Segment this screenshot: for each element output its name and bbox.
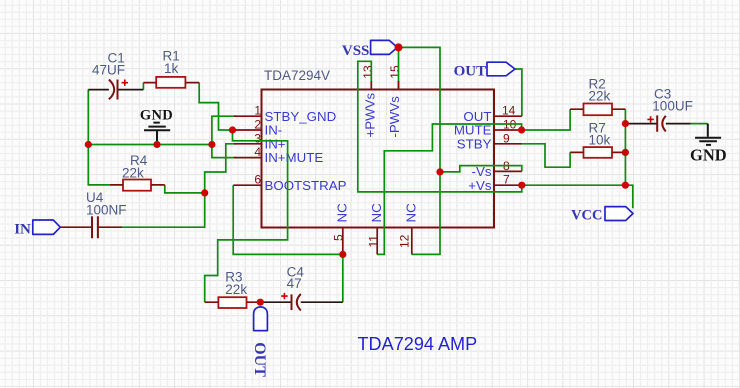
wire node to pin 1	[212, 116, 236, 144]
pin 14 stub	[494, 115, 522, 117]
capacitor C3 plus	[647, 116, 653, 122]
wire VSS to right vertical	[397, 47, 440, 254]
wire -Vs jog to pin 8	[440, 166, 522, 172]
svg-text:11: 11	[366, 235, 380, 248]
wire main ground horizontal	[88, 144, 212, 146]
wire STBY to R7 left	[522, 144, 571, 167]
wire +Vs line to VCC	[522, 185, 633, 208]
pin 7 stub	[494, 184, 522, 186]
capacitor C3 leads	[625, 123, 690, 125]
svg-text:OUT: OUT	[251, 342, 268, 377]
capacitor C4 plus	[281, 293, 287, 299]
svg-text:MUTE: MUTE	[454, 123, 492, 138]
wire pin 6 bootstrap down	[233, 185, 343, 254]
resistor R1 body	[156, 77, 185, 88]
wire C1 to R1 jog	[142, 83, 144, 90]
svg-text:+PWVs: +PWVs	[363, 92, 378, 137]
pin 9 stub	[494, 143, 522, 145]
wire pin 5 node to C4	[342, 254, 344, 302]
ground symbol left (inverted)	[144, 123, 170, 143]
svg-text:IN+: IN+	[265, 136, 286, 151]
wire R2 R7 right vertical	[624, 109, 626, 185]
svg-text:100UF: 100UF	[652, 99, 693, 114]
svg-text:22k: 22k	[122, 166, 144, 181]
svg-text:15: 15	[388, 65, 402, 79]
pin 1 stub	[234, 115, 262, 117]
pin 5 stub	[342, 228, 344, 255]
wire VSS to pin 15	[398, 47, 400, 88]
port OUT flag top	[487, 62, 515, 76]
resistor R2 leads	[570, 108, 625, 110]
svg-text:1k: 1k	[164, 61, 179, 76]
svg-text:TDA7294V: TDA7294V	[264, 68, 330, 83]
wire R1 right to IN- node	[199, 83, 232, 130]
svg-text:TDA7294 AMP: TDA7294 AMP	[358, 334, 478, 354]
wire pin 13 jog down through IC	[358, 61, 522, 192]
pin 10 stub	[494, 129, 522, 131]
port VCC flag	[605, 207, 633, 221]
resistor R3 body	[218, 297, 246, 308]
svg-text:STBY_GND: STBY_GND	[265, 109, 337, 124]
svg-text:IN: IN	[14, 221, 31, 237]
resistor R7 body	[584, 147, 613, 158]
wire C1 left vertical	[87, 90, 89, 145]
wire pin 11 to MUTE line	[377, 124, 521, 254]
pin 11 stub	[376, 228, 378, 255]
svg-text:STBY: STBY	[457, 136, 492, 151]
svg-text:100NF: 100NF	[86, 203, 127, 218]
port OUT flag bottom	[254, 307, 268, 331]
svg-text:VSS: VSS	[342, 43, 370, 59]
svg-text:12: 12	[398, 234, 412, 248]
capacitor C1 plus	[122, 80, 128, 86]
resistor R2 body	[584, 104, 613, 116]
ground symbol right	[695, 124, 721, 145]
svg-text:IN+MUTE: IN+MUTE	[265, 150, 324, 165]
svg-text:OUT: OUT	[463, 109, 491, 124]
wire to R4 left	[88, 145, 110, 185]
wire IN- feedback to R3	[205, 130, 288, 302]
resistor R4 body	[123, 180, 151, 191]
wire MUTE node to R2 left	[522, 109, 571, 130]
pin 15 stub	[398, 81, 400, 90]
capacitor C1 leads	[88, 89, 143, 91]
svg-text:IN-: IN-	[265, 123, 283, 138]
wire node to U4	[122, 193, 204, 227]
wire C3 to ground	[691, 123, 708, 125]
capacitor C3 plates	[657, 115, 666, 131]
pin 13 stub	[370, 81, 372, 90]
capacitor C4 leads	[260, 301, 343, 303]
pin 6 stub	[233, 184, 261, 186]
svg-text:VCC: VCC	[571, 208, 602, 224]
port IN flag	[33, 220, 61, 234]
wire OUT flag to pin 14	[515, 69, 522, 116]
svg-text:NC: NC	[335, 203, 350, 223]
svg-text:22k: 22k	[589, 89, 611, 104]
pin 8 stub	[494, 170, 522, 172]
op-amp U1 TDA7294V IC body	[262, 90, 495, 228]
port VSS flag	[371, 40, 398, 54]
pin 4 stub	[234, 157, 262, 159]
capacitor U4 leads	[60, 226, 122, 228]
resistor R4 leads	[110, 184, 165, 186]
svg-text:13: 13	[361, 65, 375, 79]
svg-text:22k: 22k	[225, 282, 247, 297]
svg-text:BOOTSTRAP: BOOTSTRAP	[265, 178, 347, 193]
wire node to pin 3	[205, 144, 236, 193]
junction node dots	[85, 141, 92, 148]
pin 2 stub	[233, 129, 262, 131]
capacitor C4 plates	[292, 294, 301, 310]
capacitor U4 plates	[92, 216, 98, 238]
svg-text:+Vs: +Vs	[468, 178, 492, 193]
resistor R3 leads	[205, 301, 261, 303]
capacitor C1 plates	[109, 80, 118, 100]
resistor R1 leads	[143, 82, 199, 84]
svg-text:OUT: OUT	[454, 64, 487, 80]
svg-text:GND: GND	[690, 145, 727, 164]
svg-text:10k: 10k	[589, 132, 611, 147]
svg-text:GND: GND	[140, 107, 173, 123]
wire node to pin 4	[212, 145, 236, 158]
svg-text:NC: NC	[369, 203, 384, 223]
svg-text:47: 47	[287, 276, 302, 291]
pin 3 stub	[234, 143, 262, 145]
svg-text:-PWVs: -PWVs	[387, 96, 402, 138]
pin 12 stub	[411, 228, 413, 255]
svg-text:47UF: 47UF	[92, 63, 125, 78]
svg-text:NC: NC	[404, 203, 419, 223]
wire R4 right to node	[165, 185, 205, 193]
resistor R7 leads	[570, 151, 625, 153]
